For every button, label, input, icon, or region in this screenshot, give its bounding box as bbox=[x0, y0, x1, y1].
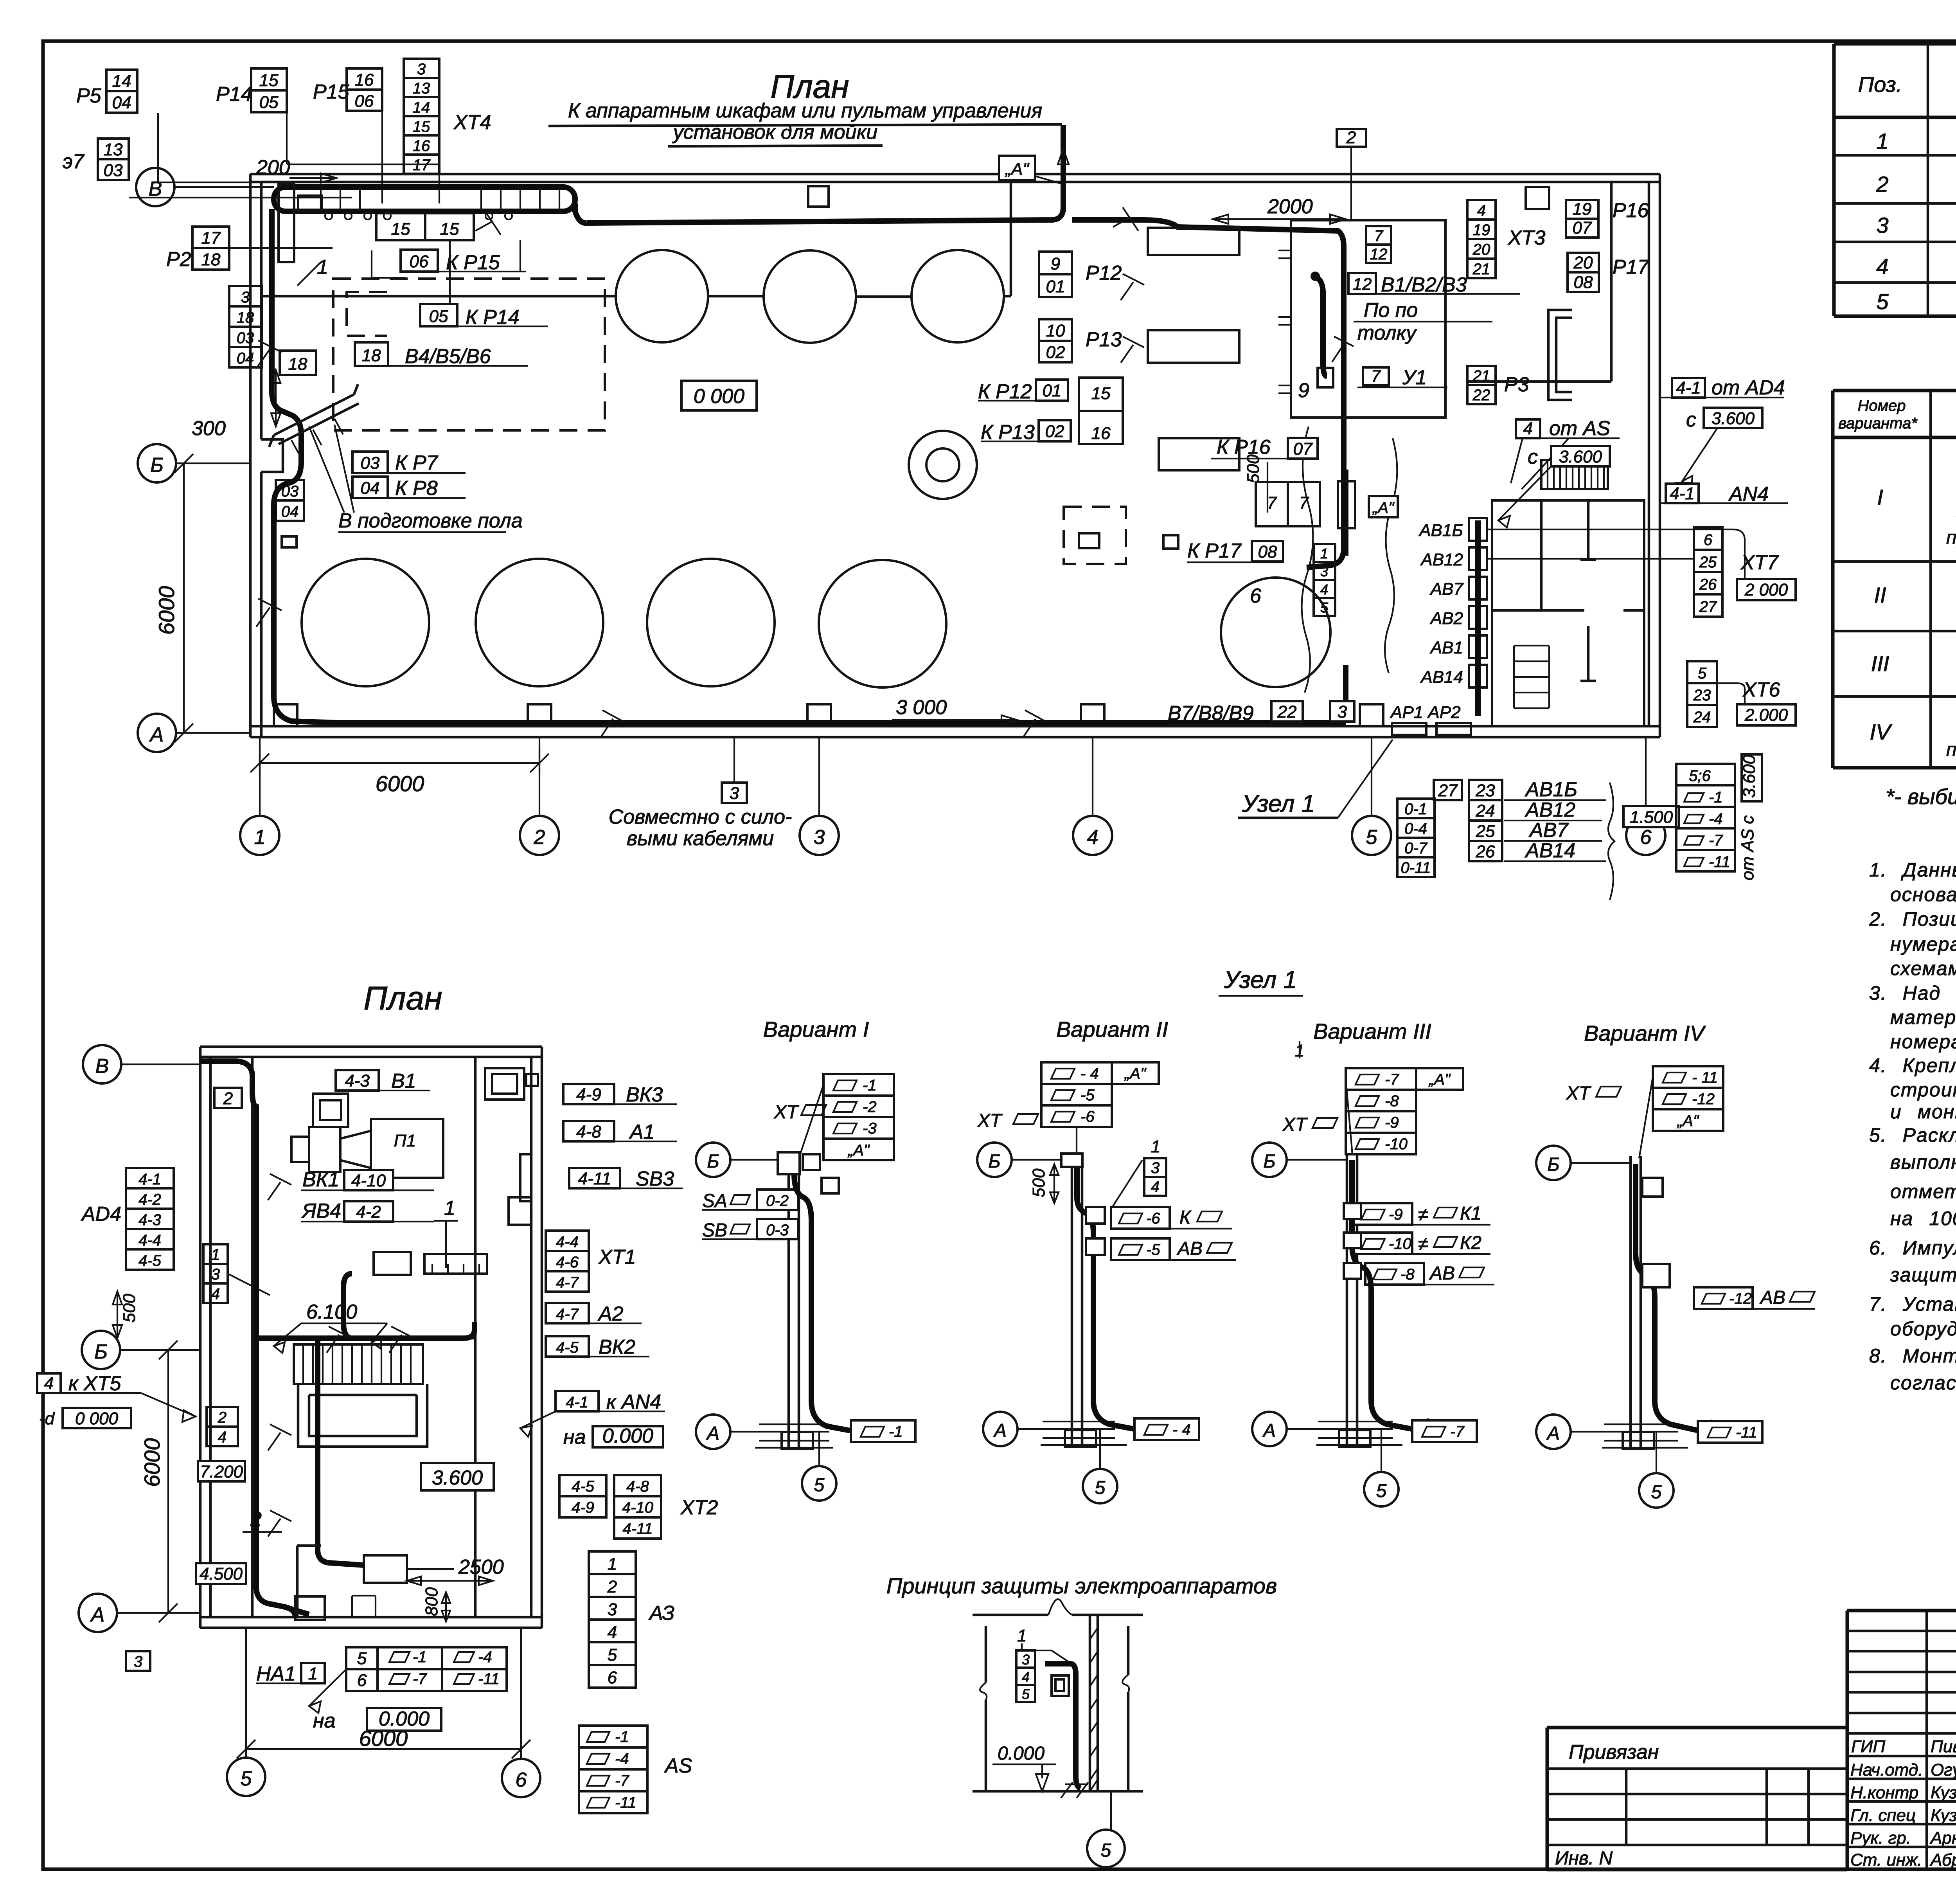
box 7 7 bbox=[1256, 482, 1288, 526]
svg-text:5: 5 bbox=[1022, 1686, 1030, 1702]
svg-text:04: 04 bbox=[361, 479, 380, 498]
svg-text:К2: К2 bbox=[1460, 1233, 1481, 1253]
svg-text:6: 6 bbox=[357, 1671, 367, 1690]
svg-text:материалов и изделий, в пр: материалов и изделий, в прямоугольниках … bbox=[1890, 1006, 1956, 1028]
svg-text:от АD4: от АD4 bbox=[1711, 376, 1785, 399]
svg-text:Вариант IV: Вариант IV bbox=[1584, 1021, 1706, 1046]
svg-text:- 11: - 11 bbox=[1692, 1069, 1718, 1086]
leaders P12 P13 bbox=[1121, 274, 1144, 363]
svg-text:АВ14: АВ14 bbox=[1525, 839, 1575, 862]
stair steps bbox=[1514, 646, 1549, 708]
K box V2 bbox=[1111, 1207, 1170, 1229]
svg-text:3 000: 3 000 bbox=[896, 696, 947, 719]
svg-text:5: 5 bbox=[1095, 1477, 1106, 1498]
svg-text:≠: ≠ bbox=[1418, 1234, 1428, 1254]
svg-text:В1/В2/В3: В1/В2/В3 bbox=[1381, 274, 1467, 296]
fittings V4 bbox=[1642, 1178, 1663, 1197]
svg-text:Р17: Р17 bbox=[1613, 256, 1650, 279]
svg-text:07: 07 bbox=[1573, 218, 1592, 238]
svg-text:-11: -11 bbox=[478, 1670, 500, 1688]
tank B1 bbox=[302, 559, 429, 686]
stack V2 bbox=[1041, 1062, 1112, 1127]
svg-text:3: 3 bbox=[1876, 213, 1888, 238]
svg-text:„А": „А" bbox=[1005, 160, 1030, 179]
box 2 bbox=[1337, 129, 1366, 147]
svg-text:-7: -7 bbox=[1709, 832, 1723, 849]
AZ stack bbox=[589, 1551, 636, 1688]
svg-text:Б: Б bbox=[707, 1151, 719, 1172]
svg-text:0-4: 0-4 bbox=[1404, 820, 1427, 837]
AS stack parallelograms bbox=[579, 1726, 647, 1813]
svg-text:-1: -1 bbox=[1709, 789, 1723, 806]
svg-text:-5: -5 bbox=[1080, 1087, 1095, 1104]
svg-text:-6: -6 bbox=[1146, 1210, 1160, 1227]
svg-text:ХТ: ХТ bbox=[977, 1110, 1003, 1131]
svg-text:АВ: АВ bbox=[1429, 1263, 1455, 1284]
svg-text:5: 5 bbox=[1651, 1482, 1662, 1503]
cable tray at B wall bbox=[274, 187, 575, 211]
svg-text:АВ: АВ bbox=[1176, 1238, 1203, 1259]
svg-text:5. Раскладку труб для элект: 5. Раскладку труб для электропроводок в … bbox=[1869, 1124, 1956, 1146]
svg-text:4: 4 bbox=[1022, 1669, 1030, 1685]
svg-text:0-2: 0-2 bbox=[766, 1192, 789, 1209]
bubble 5 V3 bbox=[1364, 1472, 1399, 1506]
svg-text:5: 5 bbox=[1698, 665, 1707, 682]
svg-text:Р3: Р3 bbox=[1504, 373, 1529, 396]
wires to XT7/XT6 bbox=[1487, 529, 1745, 704]
svg-text:План: План bbox=[363, 980, 442, 1017]
axis circle B2 bbox=[138, 444, 176, 482]
svg-text:с: с bbox=[1528, 446, 1538, 468]
inclined tube pair bbox=[269, 384, 359, 447]
4-11 SB3 bbox=[569, 1168, 620, 1188]
1.500 box bbox=[1623, 806, 1679, 827]
svg-text:Принцип защиты электроаппар: Принцип защиты электроаппаратов bbox=[886, 1573, 1277, 1598]
box 18 B4/B5/B6 bbox=[355, 342, 388, 366]
column bubble 5 bbox=[227, 1758, 265, 1796]
svg-text:К: К bbox=[1179, 1207, 1192, 1228]
svg-text:03: 03 bbox=[361, 454, 380, 473]
svg-text:4-1: 4-1 bbox=[1670, 484, 1695, 503]
stack 1345 bbox=[1314, 544, 1335, 616]
stairs lower U bbox=[298, 1384, 427, 1447]
svg-text:6000: 6000 bbox=[376, 771, 424, 796]
svg-text:3: 3 bbox=[417, 61, 426, 78]
cable V3 bbox=[1352, 1160, 1418, 1430]
svg-text:К Р17: К Р17 bbox=[1187, 540, 1242, 562]
svg-text:на 100 мм над отметкой чис: на 100 мм над отметкой чистого пола. bbox=[1890, 1208, 1956, 1229]
svg-text:Б: Б bbox=[988, 1151, 1000, 1172]
svg-text:1. Данный чертеж планов рас: 1. Данный чертеж планов расположения вып… bbox=[1869, 859, 1956, 881]
svg-text:„А": „А" bbox=[847, 1142, 870, 1159]
svg-text:22: 22 bbox=[1277, 702, 1297, 722]
svg-text:0 000: 0 000 bbox=[75, 1409, 119, 1428]
right bottom stack bbox=[1676, 764, 1735, 871]
svg-text:14: 14 bbox=[413, 99, 430, 116]
signature grid small rows bbox=[1847, 1631, 1956, 1733]
svg-text:3: 3 bbox=[608, 1600, 617, 1619]
svg-text:08: 08 bbox=[1574, 273, 1593, 292]
svg-text:-d: -d bbox=[39, 1409, 55, 1428]
leaders from relay boxes bbox=[129, 111, 439, 203]
svg-text:К Р14: К Р14 bbox=[466, 306, 520, 329]
dim 6000 bottom bbox=[250, 747, 549, 773]
svg-text:В подготовке пола: В подготовке пола bbox=[338, 509, 523, 532]
svg-text:4: 4 bbox=[1087, 826, 1098, 849]
ring pit bbox=[909, 431, 977, 499]
K1 box V3 bbox=[1354, 1203, 1412, 1225]
svg-text:4: 4 bbox=[1151, 1178, 1160, 1195]
break marks bbox=[475, 207, 1354, 362]
device box bbox=[1052, 1675, 1069, 1696]
wall cable stack 3/18/03/04 bbox=[229, 286, 262, 367]
svg-text:ХТ1: ХТ1 bbox=[598, 1246, 636, 1269]
svg-text:4-5: 4-5 bbox=[572, 1478, 595, 1495]
svg-text:7: 7 bbox=[1267, 493, 1277, 513]
svg-text:-4: -4 bbox=[1709, 810, 1723, 828]
svg-text:АВ: АВ bbox=[1759, 1287, 1785, 1308]
svg-text:- 4: - 4 bbox=[1172, 1421, 1191, 1438]
svg-text:23: 23 bbox=[1693, 687, 1711, 704]
svg-text:24: 24 bbox=[1693, 709, 1711, 726]
bubble 5 V4 bbox=[1639, 1473, 1674, 1508]
control room wall bbox=[1467, 182, 1611, 382]
svg-text:-7: -7 bbox=[1450, 1423, 1465, 1440]
variants table grid bbox=[1833, 391, 1956, 768]
fittings V2 bbox=[1086, 1207, 1105, 1224]
svg-text:согласно строительным норма: согласно строительным нормам и правилам … bbox=[1890, 1372, 1956, 1394]
dim 6000 bottom plan2 bbox=[237, 1740, 530, 1758]
bottom label V4 bbox=[1698, 1421, 1762, 1443]
foundation V4 bbox=[1623, 1432, 1654, 1449]
svg-text:7: 7 bbox=[1374, 227, 1384, 245]
node junction bbox=[1343, 470, 1348, 556]
svg-text:1: 1 bbox=[1151, 1137, 1160, 1156]
main cable to cabinets bbox=[575, 125, 1063, 223]
box 05 KP14 bbox=[420, 304, 457, 326]
svg-text:2: 2 bbox=[218, 1409, 227, 1426]
column bubble 3 bbox=[800, 816, 839, 855]
axis circle A bbox=[138, 714, 176, 752]
svg-text:5: 5 bbox=[1876, 289, 1889, 314]
svg-text:3.600: 3.600 bbox=[1740, 754, 1759, 798]
foundation V1 bbox=[782, 1432, 813, 1449]
svg-text:0-1: 0-1 bbox=[1404, 801, 1427, 818]
axis B V1 bbox=[696, 1143, 730, 1177]
svg-text:08: 08 bbox=[1258, 542, 1277, 561]
AB breaker column bbox=[1469, 518, 1487, 687]
stair landing bbox=[1492, 500, 1584, 610]
svg-text:-10: -10 bbox=[1389, 1235, 1411, 1253]
dim 500 left bbox=[113, 1291, 122, 1338]
svg-text:А: А bbox=[149, 723, 164, 746]
svg-text:26: 26 bbox=[1699, 576, 1717, 593]
svg-text:500: 500 bbox=[1029, 1168, 1048, 1197]
svg-text:ХТ: ХТ bbox=[1282, 1114, 1308, 1135]
box 06 KP15 bbox=[401, 250, 438, 272]
svg-text:5;6: 5;6 bbox=[1689, 767, 1711, 785]
svg-text:отметке минус 100 мм. Ко: отметке минус 100 мм. Концы труб вывести bbox=[1890, 1181, 1956, 1202]
svg-text:АN4: АN4 bbox=[1728, 483, 1769, 506]
svg-text:27: 27 bbox=[1699, 598, 1717, 615]
svg-text:4-4: 4-4 bbox=[556, 1233, 579, 1251]
mid equipment box bbox=[364, 1555, 407, 1583]
right wall bbox=[1649, 174, 1660, 737]
svg-text:ХТ4: ХТ4 bbox=[453, 111, 491, 134]
subtitle underline / cable to cabinets bbox=[548, 124, 1062, 126]
svg-text:нумерация и типы кабелей и: нумерация и типы кабелей и труб соответс… bbox=[1890, 933, 1956, 955]
svg-text:ВК3: ВК3 bbox=[626, 1083, 663, 1106]
svg-text:18: 18 bbox=[288, 355, 307, 374]
bottom inner partition bbox=[297, 1546, 321, 1617]
svg-text:АВ12: АВ12 bbox=[1525, 799, 1575, 821]
svg-text:6: 6 bbox=[1704, 531, 1713, 549]
svg-text:предусматривает дистанционное: предусматривает дистанционное управление… bbox=[1946, 527, 1956, 548]
svg-text:- 4: - 4 bbox=[1080, 1065, 1099, 1082]
svg-text:ХТ2: ХТ2 bbox=[680, 1496, 718, 1519]
cable breaks plan2 bbox=[268, 1174, 413, 1537]
svg-text:Гл. спец: Гл. спец bbox=[1850, 1806, 1916, 1825]
svg-text:3: 3 bbox=[730, 784, 739, 803]
svg-text:выполнить до сооружения чи: выполнить до сооружения чистого пола на bbox=[1890, 1151, 1956, 1173]
AB riser cable bbox=[1475, 520, 1481, 716]
svg-text:6. Импульсные трубки, про: 6. Импульсные трубки, проложенные открыт… bbox=[1869, 1237, 1956, 1259]
svg-text:16: 16 bbox=[413, 137, 430, 155]
subtitle 2 underline bbox=[668, 146, 883, 146]
3.600 box bbox=[421, 1463, 494, 1490]
svg-text:4.500: 4.500 bbox=[200, 1564, 243, 1584]
building outline bbox=[200, 1047, 542, 1628]
tank T2 bbox=[764, 250, 856, 343]
bench 3 bbox=[1159, 438, 1239, 470]
svg-text:0-7: 0-7 bbox=[1404, 840, 1428, 857]
tank B6 bbox=[1221, 578, 1330, 687]
svg-text:9: 9 bbox=[1298, 379, 1309, 402]
stairwell room bbox=[1492, 500, 1644, 726]
svg-text:13: 13 bbox=[104, 140, 123, 159]
column bubble 4 bbox=[1073, 816, 1112, 855]
svg-text:4-8: 4-8 bbox=[626, 1478, 649, 1495]
svg-text:-2: -2 bbox=[863, 1098, 877, 1116]
svg-text:Б: Б bbox=[94, 1341, 108, 1363]
svg-text:IV: IV bbox=[1870, 720, 1893, 744]
svg-text:15: 15 bbox=[413, 118, 430, 135]
axis circle B2 bbox=[82, 1331, 120, 1369]
svg-text:4: 4 bbox=[1523, 419, 1533, 438]
svg-text:-1: -1 bbox=[413, 1648, 427, 1666]
svg-text:Р13: Р13 bbox=[1086, 328, 1122, 351]
T columns bbox=[1580, 500, 1644, 681]
svg-text:ХТ3: ХТ3 bbox=[1508, 227, 1545, 249]
leader verticals KP bbox=[450, 240, 520, 304]
svg-text:-7: -7 bbox=[413, 1670, 427, 1688]
tank T1 bbox=[616, 250, 708, 342]
svg-text:1: 1 bbox=[608, 1555, 617, 1574]
svg-text:03: 03 bbox=[104, 161, 123, 180]
foundation V2 bbox=[1065, 1430, 1096, 1447]
svg-text:6: 6 bbox=[1250, 585, 1261, 607]
top wall bbox=[250, 174, 1660, 182]
svg-text:Пивторак: Пивторак bbox=[1931, 1737, 1956, 1756]
wall section hatched bbox=[1090, 1615, 1098, 1791]
tank T3 bbox=[911, 250, 1004, 342]
svg-text:3.600: 3.600 bbox=[1711, 409, 1755, 428]
column bubble 6 bbox=[502, 1759, 540, 1797]
svg-text:АD4: АD4 bbox=[81, 1203, 121, 1226]
svg-text:4: 4 bbox=[44, 1374, 54, 1393]
svg-text:15: 15 bbox=[440, 220, 459, 239]
cable V4 bbox=[1636, 1164, 1702, 1431]
XT1 stack bbox=[546, 1231, 589, 1292]
bubble 5 V1 bbox=[802, 1466, 836, 1501]
relay P16 bbox=[1566, 200, 1598, 219]
svg-text:-6: -6 bbox=[1080, 1108, 1095, 1125]
svg-text:на: на bbox=[563, 1426, 586, 1449]
4-8 A1 bbox=[563, 1121, 614, 1141]
svg-text:Нач.отд.: Нач.отд. bbox=[1850, 1760, 1923, 1780]
floor line bbox=[973, 1790, 1143, 1793]
svg-text:3: 3 bbox=[134, 1653, 142, 1670]
svg-text:К аппаратным шкафам или пу: К аппаратным шкафам или пультам управлен… bbox=[568, 99, 1042, 122]
svg-text:и монтажной полосой с ша: и монтажной полосой с шагом не более 800… bbox=[1890, 1101, 1956, 1123]
svg-text:1: 1 bbox=[444, 1197, 455, 1220]
svg-text:-1: -1 bbox=[889, 1423, 903, 1440]
svg-text:25: 25 bbox=[1476, 822, 1495, 841]
svg-text:номера кабелей и труб.: номера кабелей и труб. bbox=[1890, 1031, 1956, 1053]
svg-text:04: 04 bbox=[237, 350, 254, 367]
svg-text:основании строительных и те: основании строительных и технологических… bbox=[1890, 884, 1956, 905]
svg-text:4-9: 4-9 bbox=[572, 1499, 594, 1516]
svg-text:1: 1 bbox=[254, 826, 266, 849]
relay P12 bbox=[1039, 252, 1072, 274]
axis circle A bbox=[79, 1594, 117, 1632]
svg-text:АS: АS bbox=[664, 1755, 692, 1777]
svg-text:-7: -7 bbox=[1385, 1071, 1399, 1088]
axis A V3 bbox=[1252, 1412, 1287, 1446]
svg-text:12: 12 bbox=[1370, 246, 1388, 263]
svg-text:4-3: 4-3 bbox=[138, 1211, 161, 1229]
top right device bbox=[485, 1068, 524, 1100]
tank B4 bbox=[819, 560, 946, 687]
svg-text:3.600: 3.600 bbox=[432, 1467, 483, 1489]
svg-text:4: 4 bbox=[1320, 581, 1328, 597]
stairs hatch bbox=[1541, 460, 1608, 489]
svg-text:14: 14 bbox=[112, 72, 131, 91]
svg-text:Огурцов: Огурцов bbox=[1931, 1760, 1956, 1780]
svg-text:Рук. гр.: Рук. гр. bbox=[1850, 1828, 1911, 1848]
svg-text:03: 03 bbox=[237, 329, 254, 347]
svg-text:Вариант III: Вариант III bbox=[1313, 1019, 1431, 1044]
svg-text:АЗ: АЗ bbox=[648, 1602, 674, 1625]
interior wall x2584 bbox=[1010, 182, 1012, 296]
svg-text:0.000: 0.000 bbox=[998, 1743, 1045, 1764]
box 12 B1/B2/B3 bbox=[1348, 273, 1376, 294]
axis B V2 bbox=[977, 1143, 1012, 1177]
svg-text:15: 15 bbox=[259, 71, 279, 90]
svg-text:1.500: 1.500 bbox=[1630, 808, 1673, 827]
svg-text:3: 3 bbox=[1320, 563, 1328, 579]
svg-text:Кузнецов: Кузнецов bbox=[1931, 1783, 1956, 1802]
svg-text:-3: -3 bbox=[863, 1120, 877, 1137]
axis A V4 bbox=[1536, 1415, 1571, 1449]
svg-text:01: 01 bbox=[1046, 277, 1065, 296]
axis B V3 bbox=[1252, 1143, 1287, 1177]
svg-text:3: 3 bbox=[814, 826, 825, 849]
svg-text:-1: -1 bbox=[863, 1077, 877, 1094]
ceiling line bbox=[973, 1614, 1143, 1616]
svg-text:2. Позиции монтируемых прибо: 2. Позиции монтируемых приборов и аппара… bbox=[1869, 908, 1956, 930]
svg-text:Вариант I: Вариант I bbox=[763, 1017, 869, 1042]
svg-text:Кузнецов: Кузнецов bbox=[1931, 1806, 1956, 1825]
svg-text:В7/В8/В9: В7/В8/В9 bbox=[1168, 702, 1254, 725]
label 2 top bbox=[214, 1088, 242, 1108]
bottom label V2 bbox=[1134, 1418, 1199, 1440]
svg-text:По по: По по bbox=[1364, 299, 1418, 322]
svg-text:строительным конструкциям,: строительным конструкциям, выполнить ско… bbox=[1890, 1079, 1956, 1101]
svg-text:Узел 1: Узел 1 bbox=[1224, 966, 1297, 993]
svg-text:300: 300 bbox=[192, 417, 226, 440]
parts list table grid bbox=[1834, 44, 1956, 316]
svg-text:4-9: 4-9 bbox=[576, 1085, 601, 1104]
svg-text:4-1: 4-1 bbox=[566, 1394, 588, 1411]
svg-text:26: 26 bbox=[1476, 842, 1495, 861]
svg-text:4-11: 4-11 bbox=[622, 1520, 653, 1537]
svg-text:18: 18 bbox=[237, 309, 254, 326]
svg-text:0-3: 0-3 bbox=[766, 1222, 789, 1239]
left small stack bottom bbox=[126, 1651, 150, 1671]
svg-text:АВ7: АВ7 bbox=[1528, 819, 1569, 842]
svg-text:05: 05 bbox=[429, 307, 448, 326]
svg-text:-9: -9 bbox=[1389, 1206, 1403, 1223]
AB box V4 bbox=[1694, 1287, 1753, 1309]
small square col A bbox=[808, 186, 829, 207]
column bubble 2 bbox=[520, 816, 559, 855]
svg-text:0.000: 0.000 bbox=[379, 1708, 430, 1730]
svg-text:3: 3 bbox=[241, 289, 250, 306]
svg-text:1: 1 bbox=[1876, 129, 1888, 153]
svg-text:4-10: 4-10 bbox=[351, 1171, 386, 1190]
svg-text:6.100: 6.100 bbox=[306, 1301, 357, 1323]
svg-text:толку: толку bbox=[1357, 322, 1417, 344]
svg-text:4-3: 4-3 bbox=[345, 1071, 370, 1091]
wall V2 bbox=[1072, 1154, 1082, 1448]
svg-text:АВ1: АВ1 bbox=[1429, 638, 1463, 657]
svg-text:3: 3 bbox=[1022, 1652, 1030, 1668]
svg-text:-8: -8 bbox=[1400, 1266, 1415, 1283]
svg-text:4-8: 4-8 bbox=[576, 1122, 601, 1141]
stack V4 bbox=[1653, 1066, 1723, 1131]
svg-text:с: с bbox=[1686, 409, 1696, 431]
bottom label V1 bbox=[851, 1420, 915, 1442]
svg-text:НА1: НА1 bbox=[256, 1663, 296, 1685]
svg-text:7. Установку и привязку: 7. Установку и привязку электрощитов сил… bbox=[1869, 1293, 1956, 1315]
small square col C bbox=[282, 536, 297, 547]
svg-text:18: 18 bbox=[201, 250, 221, 269]
svg-text:К1: К1 bbox=[1460, 1203, 1481, 1224]
bottom ref table plan2 bbox=[346, 1647, 507, 1691]
svg-text:К Р7: К Р7 bbox=[395, 452, 439, 474]
svg-text:II: II bbox=[1874, 583, 1886, 607]
svg-text:02: 02 bbox=[1045, 422, 1064, 441]
svg-text:16: 16 bbox=[355, 70, 374, 90]
svg-text:В4/В5/В6: В4/В5/В6 bbox=[405, 345, 491, 368]
0-x stack bbox=[1397, 799, 1435, 877]
svg-text:22: 22 bbox=[1472, 387, 1490, 404]
device hook tube bbox=[1045, 1664, 1080, 1788]
left wall bbox=[250, 174, 261, 737]
thick cable plan2 bbox=[200, 1061, 295, 1617]
svg-text:-9: -9 bbox=[1385, 1114, 1399, 1131]
